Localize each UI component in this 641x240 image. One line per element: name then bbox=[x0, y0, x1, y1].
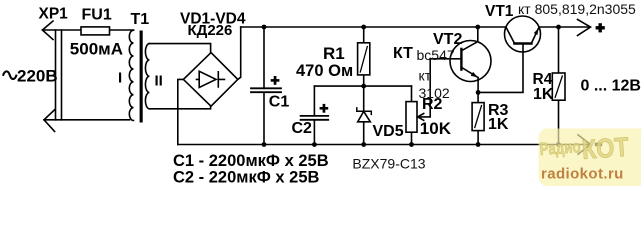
svg-text:10K: 10K bbox=[420, 119, 452, 138]
plug XP1 double line bbox=[56, 30, 62, 120]
transistor VT1 collector bbox=[506, 27, 515, 44]
transformer T1 core bbox=[140, 31, 143, 123]
wire mains bottom bbox=[44, 119, 130, 121]
svg-text:кт 805,819,2n3055: кт 805,819,2n3055 bbox=[518, 1, 636, 17]
svg-text:C1: C1 bbox=[269, 94, 290, 111]
svg-text:Радио: Радио bbox=[539, 136, 581, 159]
capacitor C2 leads bbox=[313, 86, 315, 144]
wire wiper to VT2 base bbox=[418, 59, 462, 117]
svg-text:КД226: КД226 bbox=[188, 22, 233, 39]
capacitor C1 plates bbox=[251, 88, 281, 92]
svg-text:R1: R1 bbox=[323, 44, 345, 63]
output minus sign bbox=[595, 143, 602, 147]
junction node VD5 bottom bbox=[361, 142, 366, 147]
svg-text:VT2: VT2 bbox=[433, 31, 462, 48]
resistor R1 body bbox=[358, 43, 370, 75]
svg-text:1K: 1K bbox=[488, 116, 509, 133]
resistor R3 slash bbox=[475, 106, 482, 128]
svg-text:0 ... 12В: 0 ... 12В bbox=[581, 78, 641, 95]
svg-text:470 Ом: 470 Ом bbox=[296, 62, 353, 80]
transistor VT1 circle bbox=[505, 16, 541, 52]
output minus arrow bbox=[578, 135, 591, 154]
wire secondary top to bridge bbox=[149, 44, 210, 53]
svg-text:C1 - 2200мкФ х 25В: C1 - 2200мкФ х 25В bbox=[173, 152, 329, 170]
label ~220V tilde bbox=[3, 71, 17, 79]
zener VD5 triangle bbox=[358, 111, 371, 121]
svg-text:BZX79-C13: BZX79-C13 bbox=[352, 156, 425, 172]
potentiometer R2 body bbox=[406, 102, 417, 133]
svg-text:C2 - 220мкФ х 25В: C2 - 220мкФ х 25В bbox=[173, 169, 320, 187]
resistor R1 slash bbox=[360, 47, 367, 73]
svg-text:кт: кт bbox=[419, 68, 432, 84]
junction node VT2 emitter bbox=[476, 90, 481, 95]
junction node R1 top bbox=[361, 25, 366, 30]
transistor VT2 collector bbox=[461, 27, 477, 51]
capacitor C1 plus mark bbox=[271, 76, 280, 85]
junction node R3 bottom bbox=[476, 142, 481, 147]
bridge diode symbol bbox=[197, 71, 225, 87]
output plus arrow bbox=[578, 20, 591, 36]
svg-text:VD5: VD5 bbox=[373, 123, 404, 140]
zener VD5 cathode bar bbox=[357, 108, 372, 115]
output plus sign bbox=[596, 23, 605, 32]
transformer T1 primary winding bbox=[129, 30, 133, 120]
junction node R4 bottom bbox=[556, 142, 561, 147]
svg-text:T1: T1 bbox=[131, 11, 150, 28]
svg-text:220В: 220В bbox=[17, 66, 58, 85]
resistor R4 slash bbox=[555, 76, 562, 97]
capacitor C2 plus mark bbox=[320, 104, 329, 113]
potentiometer R2 wiper arrow bbox=[418, 114, 424, 121]
svg-text:500мА: 500мА bbox=[70, 39, 123, 58]
resistor R1 leads bbox=[363, 27, 365, 86]
transistor VT1 base bar bbox=[514, 42, 531, 44]
junction node C2 bottom bbox=[312, 142, 317, 147]
fuse FU1 bbox=[81, 27, 110, 35]
resistor R3 leads bbox=[477, 92, 479, 144]
bridge rectifier VD1-VD4 diamond bbox=[183, 53, 237, 107]
svg-text:XP1: XP1 bbox=[39, 6, 69, 23]
watermark radiokot box bbox=[539, 129, 641, 187]
wire bottom bus bbox=[178, 144, 590, 146]
wire VT2 emitter to VT1 base bbox=[478, 44, 523, 93]
svg-text:3102: 3102 bbox=[419, 85, 450, 101]
transformer T1 secondary winding bbox=[145, 44, 149, 109]
junction node R1 bottom bbox=[361, 84, 366, 89]
svg-text:I: I bbox=[118, 69, 122, 86]
svg-text:VT1: VT1 bbox=[485, 3, 514, 20]
junction node C1 top bbox=[262, 25, 267, 30]
resistor R3 body bbox=[472, 103, 484, 131]
junction node C1 bottom bbox=[262, 142, 267, 147]
svg-text:II: II bbox=[155, 72, 163, 89]
svg-text:КОТ: КОТ bbox=[581, 132, 630, 165]
capacitor C1 leads bbox=[263, 27, 265, 145]
transistor VT2 base bar bbox=[460, 49, 462, 70]
svg-text:1K: 1K bbox=[533, 86, 554, 103]
wire reference node horizontal bbox=[314, 85, 411, 87]
svg-text:FU1: FU1 bbox=[82, 7, 112, 24]
resistor R4 leads bbox=[558, 27, 560, 145]
transistor VT2 emitter arrowhead bbox=[471, 72, 478, 78]
wire mains top bbox=[42, 29, 133, 31]
junction node R2 bottom bbox=[409, 142, 414, 147]
wire secondary bottom to bridge bbox=[149, 106, 210, 109]
plug XP1 prong bottom bbox=[44, 110, 55, 132]
potentiometer R2 risers bbox=[411, 86, 413, 144]
wire bridge left corner to bottom rail bbox=[178, 79, 184, 144]
transistor VT2 circle bbox=[450, 41, 491, 82]
svg-text:КТ: КТ bbox=[393, 45, 413, 62]
zener VD5 leads bbox=[363, 86, 365, 144]
svg-text:radiokot.ru: radiokot.ru bbox=[541, 166, 624, 183]
svg-text:C2: C2 bbox=[292, 120, 313, 137]
transistor VT2 emitter bbox=[461, 67, 478, 92]
capacitor C2 plates bbox=[301, 116, 329, 120]
wire bridge right corner riser bbox=[238, 27, 241, 79]
wire top bus right segment bbox=[539, 26, 589, 28]
transistor VT1 emitter arrowhead bbox=[534, 28, 539, 35]
junction node R4 top bbox=[556, 25, 561, 30]
wire top bus left segment bbox=[241, 26, 506, 28]
transistor VT1 emitter bbox=[531, 27, 539, 44]
svg-text:bc547: bc547 bbox=[417, 47, 455, 63]
junction node VT2 collector bbox=[475, 25, 480, 30]
plug XP1 prong top bbox=[42, 21, 53, 40]
resistor R4 body bbox=[552, 73, 565, 100]
